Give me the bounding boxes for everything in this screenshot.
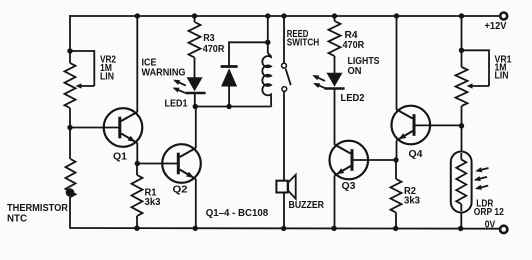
svg-text:0V: 0V — [485, 219, 496, 230]
node R1 ground junction — [134, 226, 139, 231]
label SWITCH — [287, 38, 319, 49]
label BUZZER — [289, 200, 325, 211]
wire Q2 base — [137, 163, 179, 165]
svg-text:THERMISTOR: THERMISTOR — [7, 203, 69, 214]
wire Q4 collector to rail — [396, 16, 398, 110]
wire thermistor to 0V — [69, 197, 71, 229]
reed switch contact top — [282, 63, 287, 68]
svg-text:Q2: Q2 — [173, 185, 188, 196]
buzzer body — [276, 175, 295, 199]
label R4 470R — [343, 40, 365, 51]
node coil rail junction — [265, 13, 270, 18]
thermistor bead — [66, 188, 75, 197]
svg-text:LED1: LED1 — [165, 98, 188, 109]
node 0V terminal — [500, 226, 507, 233]
label R1 — [145, 188, 157, 199]
label VR1 — [495, 55, 512, 66]
LED2 emission arrows — [312, 75, 325, 88]
node R4 rail junction — [332, 13, 337, 18]
LDR resistor element — [456, 153, 466, 211]
wire coil bottom bus — [195, 106, 271, 108]
node R2 ground junction — [393, 226, 398, 231]
label Q3 — [342, 181, 356, 192]
label R2 — [404, 186, 416, 197]
wire reed switch top — [283, 16, 285, 63]
resistor R4 — [329, 21, 341, 56]
wire Q1 base — [70, 127, 121, 129]
svg-text:3k3: 3k3 — [145, 197, 161, 208]
wire Q4 base — [414, 124, 462, 126]
label R1 3k3 — [145, 197, 161, 208]
svg-text:WARNING: WARNING — [142, 68, 186, 79]
svg-text:SWITCH: SWITCH — [287, 38, 319, 49]
transistor Q4 — [392, 106, 431, 145]
wire VR2 wiper arm — [76, 83, 95, 88]
node Q4 collector rail junction — [394, 13, 399, 18]
label R3 470R — [203, 44, 225, 55]
wire LED1 cathode down — [194, 94, 196, 107]
wire R2 bottom — [395, 213, 397, 229]
inductor relay coil — [262, 42, 271, 106]
resistor R2 — [391, 179, 402, 213]
svg-text:3k3: 3k3 — [404, 195, 420, 206]
label LED1 — [165, 98, 188, 109]
svg-text:NTC: NTC — [7, 214, 28, 225]
label ICE — [142, 58, 157, 69]
wire LED2 to Q3 collector — [334, 90, 336, 145]
label VR2 1M — [100, 63, 112, 74]
wire R1 bottom — [136, 216, 138, 228]
node +12V terminal — [500, 13, 507, 20]
wire VR2 wiper link — [71, 51, 95, 86]
wire Q1 collector to rail — [136, 16, 138, 112]
label ORP 12 — [474, 207, 504, 218]
svg-text:Q3: Q3 — [342, 181, 356, 192]
label ON — [348, 66, 362, 77]
label LIGHTS — [348, 56, 380, 67]
node LDR ground junction — [458, 226, 463, 231]
label NTC — [7, 214, 28, 225]
wire 0V bottom rail — [70, 227, 499, 230]
wire Q4 emitter down — [396, 141, 398, 161]
label Q1 — [113, 151, 127, 162]
potentiometer VR2 — [65, 63, 76, 108]
node VR2 top junction — [67, 48, 72, 53]
label Q2 — [173, 185, 188, 196]
svg-text:Q1–4 - BC108: Q1–4 - BC108 — [206, 208, 269, 219]
wire R3 to LED1 — [194, 58, 196, 79]
label VR1 1M — [495, 63, 507, 74]
node Q2 emitter ground junction — [193, 226, 198, 231]
svg-text:LED2: LED2 — [341, 93, 365, 104]
svg-text:LIN: LIN — [495, 71, 509, 82]
wire VR1 to Q4 base node — [461, 106, 463, 152]
node R3 rail junction — [192, 13, 197, 18]
wire reed switch to buzzer — [283, 92, 285, 181]
node Q4 base junction — [459, 123, 464, 128]
wire VR1 wiper link — [462, 50, 489, 86]
wire VR1 wiper arm — [467, 83, 490, 88]
transistor Q1 — [104, 108, 143, 147]
svg-text:ON: ON — [348, 66, 362, 77]
wire R4 top — [334, 16, 336, 21]
label VR1 LIN — [495, 71, 509, 82]
label WARNING — [142, 68, 186, 79]
wire coil top from rail — [267, 16, 269, 42]
diode D1 — [221, 67, 238, 87]
node VR1 top junction — [459, 48, 464, 53]
LED LED1 — [185, 77, 205, 93]
wire Q2 emitter to 0V — [195, 179, 197, 229]
label Q1-4 BC108 — [206, 208, 269, 219]
wire Q1 emitter down — [136, 143, 138, 164]
node D1 bottom junction — [226, 104, 231, 109]
node Q1 emitter junction — [135, 161, 140, 166]
node Q1 collector rail junction — [135, 13, 140, 18]
label 0V — [485, 219, 496, 230]
LED LED2 — [324, 73, 344, 89]
wire left branch top — [69, 15, 71, 63]
label R2 3k3 — [404, 195, 420, 206]
wire R2 top — [395, 160, 397, 179]
reed switch blade — [286, 69, 291, 86]
wire VR1 top — [461, 16, 463, 67]
wire Q3 base — [352, 159, 396, 161]
resistor R3 — [189, 22, 201, 58]
wire +12V top rail — [70, 15, 500, 17]
node reed switch rail junction — [281, 13, 286, 18]
node Q3 emitter ground junction — [331, 226, 336, 231]
wire D1 anode down — [228, 87, 230, 107]
svg-text:+12V: +12V — [485, 21, 507, 32]
wire VR2 to Q1 base node — [69, 108, 71, 159]
wire LDR to 0V — [460, 213, 462, 229]
resistor R1 — [132, 175, 143, 216]
node LED1 bottom junction — [193, 104, 198, 109]
wire D1 top link — [229, 42, 268, 66]
label LDR — [476, 198, 494, 209]
transistor Q2 — [162, 144, 201, 183]
svg-text:Q4: Q4 — [409, 149, 423, 160]
node coil top junction — [265, 40, 270, 45]
svg-text:LIN: LIN — [100, 72, 114, 83]
node buzzer ground junction — [281, 226, 286, 231]
svg-text:Q1: Q1 — [113, 151, 127, 162]
LED1 emission arrows — [173, 80, 186, 93]
wire buzzer to 0V — [283, 193, 285, 229]
svg-text:470R: 470R — [203, 44, 225, 55]
label VR2 LIN — [100, 72, 114, 83]
wire R4 to LED2 — [334, 56, 336, 74]
LDR light arrows — [474, 167, 489, 190]
svg-text:R3: R3 — [203, 33, 215, 44]
label THERMISTOR — [7, 203, 69, 214]
LDR ORP12 envelope — [451, 152, 472, 213]
svg-text:ORP 12: ORP 12 — [474, 207, 504, 218]
transistor Q3 — [330, 141, 369, 180]
node VR1 rail junction — [459, 13, 464, 18]
wire R1 top — [136, 164, 138, 176]
label R4 — [345, 30, 358, 41]
thermistor NTC — [66, 159, 76, 197]
wire Q2 collector up — [195, 107, 197, 149]
node R2 top junction — [393, 157, 398, 162]
potentiometer VR1 — [456, 67, 468, 106]
wire R3 top — [194, 16, 196, 22]
label VR2 — [100, 55, 116, 66]
label R3 — [203, 33, 215, 44]
label LED2 — [341, 93, 365, 104]
svg-text:470R: 470R — [343, 40, 365, 51]
reed switch contact bottom — [282, 87, 287, 92]
label Q4 — [409, 149, 423, 160]
node Q1 base junction — [67, 125, 72, 130]
label REED — [287, 29, 309, 40]
wire Q3 emitter to 0V — [334, 176, 336, 229]
svg-text:BUZZER: BUZZER — [289, 200, 325, 211]
label +12V — [485, 21, 507, 32]
